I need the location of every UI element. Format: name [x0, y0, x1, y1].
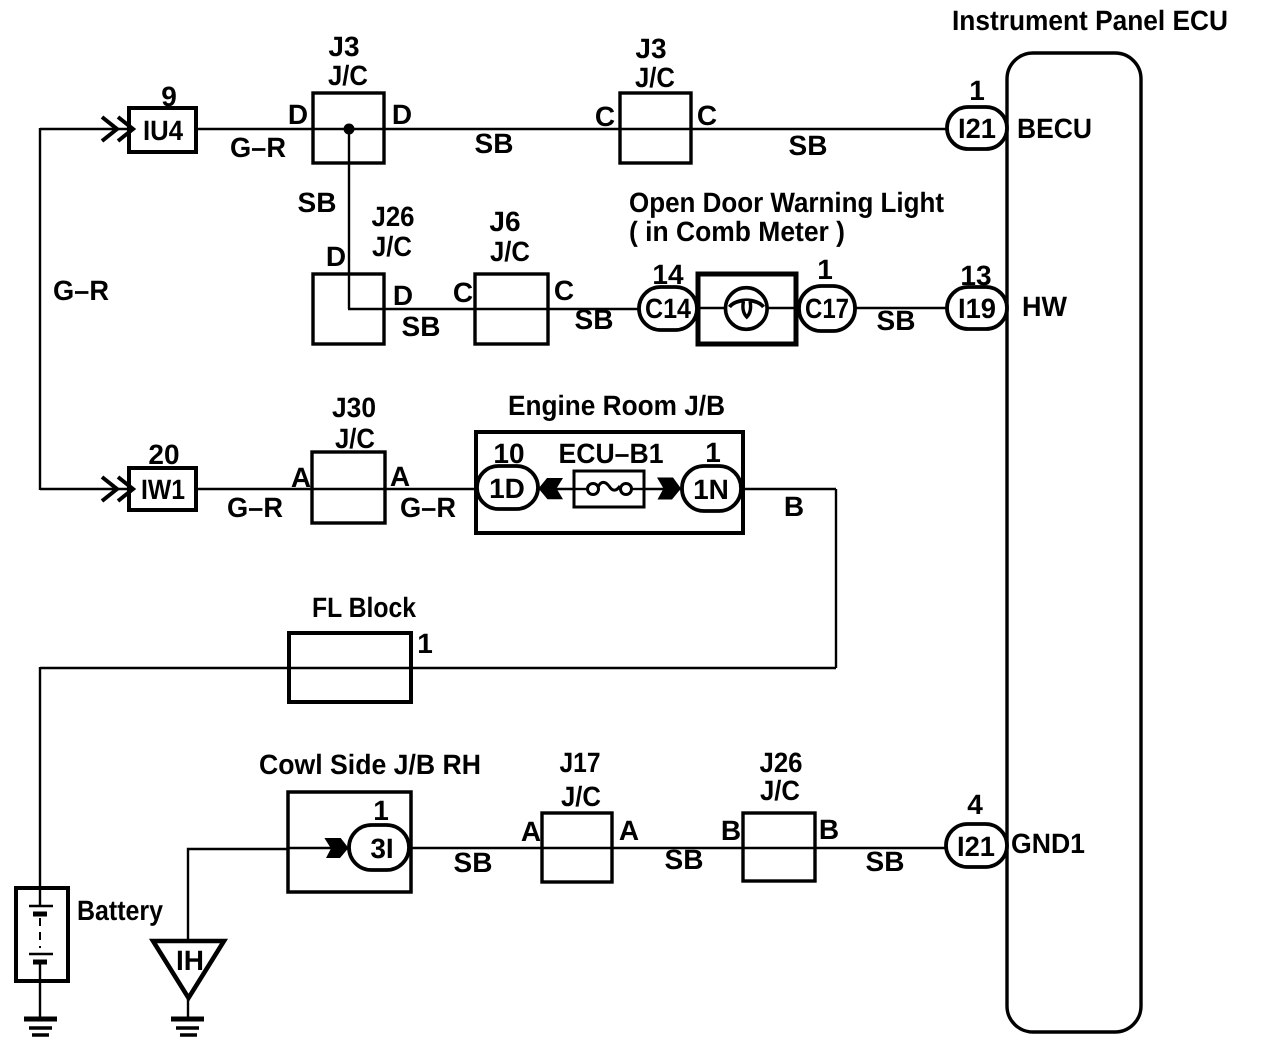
svg-text:GND1: GND1 — [1011, 828, 1085, 859]
svg-text:SB: SB — [402, 311, 441, 342]
wire inside cowl box — [288, 847, 352, 849]
wire: IH triangle tip to ground — [187, 997, 189, 1019]
wire: 1N to right vertical — [740, 488, 836, 490]
connector I21 GND1 — [946, 824, 1007, 867]
svg-text:C: C — [554, 275, 574, 306]
svg-text:I21: I21 — [957, 831, 995, 862]
svg-text:1: 1 — [969, 75, 985, 106]
ground below IH — [171, 1017, 204, 1022]
junction J3 (first) — [313, 93, 384, 163]
svg-text:SB: SB — [665, 844, 704, 875]
arrow right at 1N — [657, 478, 681, 500]
svg-text:I19: I19 — [958, 293, 996, 324]
svg-text:20: 20 — [148, 439, 179, 470]
svg-text:J3: J3 — [635, 33, 666, 64]
svg-text:1: 1 — [373, 795, 389, 826]
svg-text:ECU–B1: ECU–B1 — [559, 438, 664, 469]
junction J26 (row4) — [743, 813, 815, 881]
svg-text:A: A — [390, 461, 410, 492]
svg-text:SB: SB — [298, 187, 337, 218]
svg-text:C: C — [697, 100, 717, 131]
ground connector IH triangle — [153, 941, 224, 998]
svg-text:3I: 3I — [370, 833, 393, 864]
arrow chevrons at IU4 — [102, 117, 133, 141]
svg-text:J26: J26 — [760, 747, 803, 778]
ground below battery — [24, 1017, 57, 1022]
arrow chevrons at IW1 — [102, 477, 133, 501]
junction J26 (row2) — [313, 274, 384, 344]
arrow right at 3I — [324, 838, 348, 858]
svg-text:B: B — [784, 491, 804, 522]
svg-text:Battery: Battery — [77, 895, 163, 926]
svg-text:A: A — [291, 462, 311, 493]
svg-text:SB: SB — [877, 305, 916, 336]
svg-text:14: 14 — [652, 259, 684, 290]
wire: IH riser — [188, 849, 290, 941]
svg-text:1: 1 — [417, 628, 433, 659]
Engine Room J/B box — [476, 432, 743, 533]
connector I21 BECU — [947, 107, 1007, 149]
svg-text:1D: 1D — [489, 473, 525, 504]
svg-text:Open Door Warning Light: Open Door Warning Light — [629, 187, 944, 218]
svg-text:C: C — [453, 277, 473, 308]
svg-text:Cowl Side J/B RH: Cowl Side J/B RH — [259, 749, 481, 780]
wire: right vertical B — [835, 489, 837, 668]
svg-text:A: A — [521, 816, 541, 847]
wire: lamp box right segment — [767, 307, 799, 309]
svg-text:IW1: IW1 — [141, 474, 185, 505]
lamp box (comb meter) — [698, 274, 796, 344]
svg-text:FL Block: FL Block — [312, 592, 416, 623]
svg-text:B: B — [721, 815, 741, 846]
svg-text:A: A — [619, 815, 639, 846]
connector 1N — [682, 466, 741, 511]
svg-text:J30: J30 — [332, 392, 376, 423]
fuse ECU-B1 — [574, 471, 644, 507]
arrow left at 1D — [539, 478, 564, 499]
svg-text:Engine Room J/B: Engine Room J/B — [508, 390, 725, 421]
connector 1D — [477, 466, 538, 509]
wire: inside Engine Room J/B — [535, 488, 685, 490]
svg-text:1N: 1N — [693, 474, 729, 505]
svg-text:G–R: G–R — [230, 132, 286, 163]
svg-text:J/C: J/C — [561, 781, 601, 812]
svg-text:D: D — [326, 241, 346, 272]
svg-text:1: 1 — [705, 437, 721, 468]
battery — [16, 888, 68, 981]
wire: FL block row — [40, 667, 836, 669]
svg-text:J/C: J/C — [328, 60, 368, 91]
wire: left vertical G-R bus (IU4 row to IW1 row) — [39, 128, 41, 490]
svg-text:C17: C17 — [805, 293, 849, 324]
svg-text:J/C: J/C — [490, 236, 530, 267]
svg-text:( in Comb Meter ): ( in Comb Meter ) — [629, 216, 845, 247]
svg-text:4: 4 — [967, 789, 983, 820]
svg-text:I21: I21 — [958, 113, 996, 144]
FL Block box — [289, 633, 411, 702]
wire: into 3I — [288, 847, 352, 849]
connector 3I — [349, 825, 409, 870]
svg-text:SB: SB — [475, 128, 514, 159]
svg-text:J/C: J/C — [635, 62, 675, 93]
connector C17 — [799, 286, 855, 331]
wire: J26 to C14 row2 — [348, 308, 639, 310]
svg-text:G–R: G–R — [227, 492, 283, 523]
wire: into IW1 — [40, 488, 129, 490]
svg-text:Instrument Panel ECU: Instrument Panel ECU — [952, 5, 1228, 36]
svg-text:13: 13 — [960, 260, 991, 291]
svg-text:G–R: G–R — [53, 275, 109, 306]
svg-text:J17: J17 — [560, 747, 601, 778]
wire: into IU4 — [40, 128, 130, 130]
svg-text:1: 1 — [817, 254, 833, 285]
svg-text:J6: J6 — [489, 206, 520, 237]
junction J3 (second) — [620, 93, 691, 163]
svg-text:G–R: G–R — [400, 492, 456, 523]
svg-text:SB: SB — [789, 130, 828, 161]
svg-text:D: D — [288, 99, 308, 130]
svg-text:IH: IH — [176, 945, 204, 976]
svg-text:J/C: J/C — [760, 775, 800, 806]
svg-text:SB: SB — [575, 304, 614, 335]
Cowl Side J/B RH box — [288, 792, 411, 892]
wire: vertical J3 junction down to J26 — [348, 129, 350, 309]
connector I19 HW — [947, 287, 1007, 329]
svg-text:BECU: BECU — [1017, 113, 1092, 144]
svg-text:C: C — [595, 101, 615, 132]
junction J17 — [542, 813, 612, 882]
svg-text:J/C: J/C — [372, 231, 412, 262]
svg-text:9: 9 — [161, 81, 177, 112]
svg-text:SB: SB — [866, 846, 905, 877]
svg-text:HW: HW — [1022, 291, 1068, 322]
svg-text:J26: J26 — [372, 201, 415, 232]
svg-text:J3: J3 — [328, 31, 359, 62]
svg-text:D: D — [392, 99, 412, 130]
junction J30 — [312, 452, 385, 523]
svg-text:SB: SB — [454, 847, 493, 878]
node dot at J3 — [344, 124, 355, 135]
svg-text:B: B — [819, 814, 839, 845]
svg-text:J/C: J/C — [335, 423, 375, 454]
wire: IU4 to I21 row1 — [196, 128, 947, 130]
svg-text:D: D — [393, 280, 413, 311]
svg-text:IU4: IU4 — [143, 115, 183, 146]
wire: 3I to I21 bottom — [409, 847, 947, 849]
lamp bulb — [726, 288, 768, 330]
svg-text:C14: C14 — [645, 293, 691, 324]
wire: lamp box left segment — [697, 307, 726, 309]
connector IU4 — [129, 108, 196, 152]
connector C14 — [639, 287, 697, 330]
wire: C17 to I19 — [855, 307, 947, 309]
junction J6 — [475, 274, 548, 344]
wire: IW1 to Engine Room J/B — [196, 488, 480, 490]
connector IW1 — [129, 468, 196, 510]
Instrument Panel ECU body — [1007, 53, 1141, 1032]
wire: left vertical to battery — [39, 667, 41, 906]
